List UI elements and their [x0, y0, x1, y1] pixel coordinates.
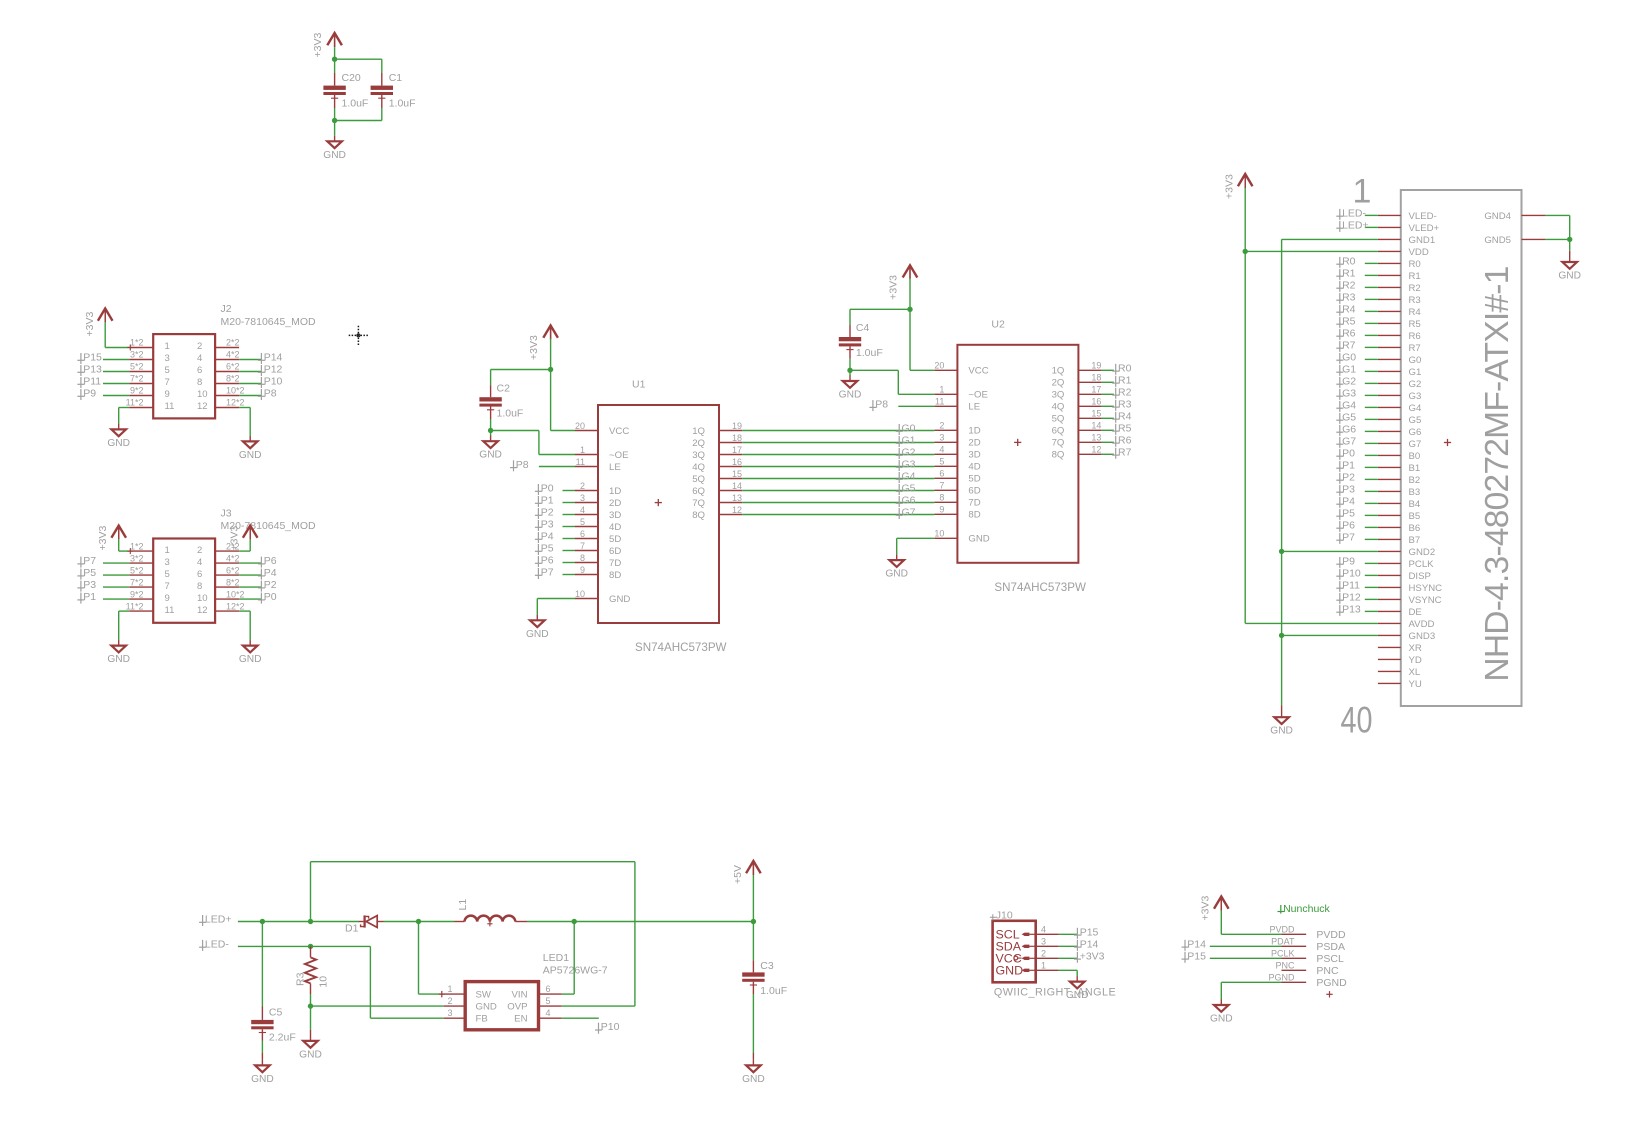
svg-text:G2: G2 [1342, 375, 1356, 387]
svg-text:R3: R3 [1409, 295, 1421, 306]
wire net P4 to NHD [1365, 502, 1378, 504]
svg-text:P10: P10 [1342, 567, 1361, 579]
svg-text:8D: 8D [609, 570, 621, 581]
svg-text:7: 7 [580, 541, 585, 551]
Nunchuck origin cross [1326, 991, 1332, 997]
NHD pin 18 G5 [1378, 418, 1401, 420]
node G2 [896, 448, 903, 459]
wire GND node to U2 ~OE [850, 369, 898, 371]
node +3V3 (J10) [1074, 952, 1081, 963]
svg-text:3D: 3D [968, 450, 980, 461]
svg-text:LED-: LED- [1342, 207, 1366, 219]
wire VIN node down to LED1 VIN [573, 922, 575, 995]
svg-text:12: 12 [1091, 445, 1101, 455]
svg-text:VSYNC: VSYNC [1409, 595, 1442, 606]
ground GND (Nunchuck) [1220, 1000, 1222, 1006]
J2 pin 7 (7*2) [129, 383, 153, 385]
svg-text:1: 1 [1041, 960, 1046, 970]
svg-text:4*2: 4*2 [226, 553, 240, 563]
node P7 [77, 557, 84, 568]
wire PGND to ground [1221, 981, 1281, 983]
LED1 pin 6 VIN [539, 993, 562, 995]
svg-text:1Q: 1Q [692, 426, 705, 437]
node P11 [77, 377, 84, 388]
wire net P15 to J2 [103, 359, 129, 361]
svg-text:1: 1 [165, 341, 170, 352]
junction LED+/OVP sense [308, 919, 313, 924]
svg-text:20: 20 [934, 361, 944, 371]
wire GND5 to GND node [1545, 238, 1569, 240]
J2 origin cross [349, 326, 369, 345]
U1 pin 8 7D [575, 562, 598, 564]
svg-text:P0: P0 [264, 591, 277, 603]
NHD pin 14 G1 [1378, 370, 1401, 372]
node R4 (U2) [1112, 412, 1119, 423]
J3 pin 12 (12*2) [215, 610, 239, 612]
junction GND3 [1279, 633, 1284, 638]
svg-text:+3V3: +3V3 [1200, 896, 1212, 921]
wire J3 to net P4 [239, 574, 261, 576]
NHD pin 11 R6 [1378, 334, 1401, 336]
node P0 (U1) [535, 484, 542, 495]
LED driver LED1 AP5726WG-7 [465, 982, 538, 1030]
node P14 (Nunchuck) [1182, 940, 1189, 951]
svg-text:SN74AHC573PW: SN74AHC573PW [635, 641, 727, 654]
ground GND (J10) [1076, 976, 1078, 982]
U2 pin 17 3Q [1078, 393, 1101, 395]
node G5 [896, 484, 903, 495]
svg-text:4D: 4D [968, 462, 980, 473]
J3 pin 10 (10*2) [215, 598, 239, 600]
svg-text:GND3: GND3 [1409, 631, 1436, 642]
wire net R4 to NHD [1365, 310, 1378, 312]
svg-text:9: 9 [165, 593, 170, 604]
svg-text:SN74AHC573PW: SN74AHC573PW [994, 581, 1086, 594]
NHD pin 22 B1 [1378, 466, 1401, 468]
NHD pin 10 R5 [1378, 322, 1401, 324]
wire GND node down [1569, 239, 1571, 250]
svg-text:R6: R6 [1409, 331, 1421, 342]
svg-text:P10: P10 [264, 376, 283, 388]
U2 pin 14 6Q [1078, 429, 1101, 431]
NHD pin GND5 [1522, 238, 1546, 240]
node P15 (Nunchuck) [1182, 952, 1189, 963]
U1 pin 11 LE [575, 466, 598, 468]
svg-text:5*2: 5*2 [130, 362, 144, 372]
NHD pin 17 G4 [1378, 406, 1401, 408]
svg-text:14: 14 [1091, 421, 1101, 431]
wire J3 to net P6 [239, 562, 261, 564]
J2 pin 3 (3*2) [129, 359, 153, 361]
NHD pin 34 DE [1378, 610, 1401, 612]
LED1 pin 3 FB [444, 1017, 466, 1019]
node G1 [896, 436, 903, 447]
node G3 [896, 460, 903, 471]
wire C4 to GND node [849, 359, 851, 371]
U2 pin 3 2D [934, 441, 957, 443]
J3 anchor cross [127, 548, 133, 554]
svg-text:R2: R2 [1342, 279, 1356, 291]
svg-text:J3: J3 [221, 507, 232, 519]
svg-text:EN: EN [514, 1014, 527, 1025]
NHD pin 26 B5 [1378, 514, 1401, 516]
svg-text:8*2: 8*2 [226, 577, 240, 587]
wire GND1 rail [1282, 238, 1378, 240]
NHD pin 7 R2 [1378, 286, 1401, 288]
svg-text:13: 13 [732, 493, 742, 503]
svg-text:2D: 2D [609, 498, 621, 509]
svg-text:+3V3: +3V3 [97, 526, 109, 551]
svg-text:4: 4 [546, 1008, 551, 1018]
svg-text:7Q: 7Q [1052, 438, 1065, 449]
NHD pin 30 PCLK [1378, 562, 1401, 564]
svg-text:P14: P14 [264, 352, 283, 364]
junction GND node (U2) [847, 368, 852, 373]
node P9 [77, 389, 84, 400]
wire GND2 pin [1282, 550, 1378, 552]
svg-text:1.0uF: 1.0uF [389, 97, 416, 109]
svg-text:P10: P10 [601, 1021, 620, 1033]
connector J3 M20-7810645_MOD [153, 539, 215, 623]
svg-text:G3: G3 [1409, 391, 1422, 402]
U2 pin 5 4D [934, 465, 957, 467]
U2 pin 1 ~OE [934, 393, 957, 395]
wire net G3 (U1 4Q to U2 4D) [742, 466, 934, 468]
wire +3V3 to VDD pin [1245, 250, 1378, 252]
svg-text:PCLK: PCLK [1271, 949, 1295, 959]
wire net R1 to NHD [1365, 274, 1378, 276]
node P4 (U1) [535, 532, 542, 543]
svg-text:G1: G1 [1342, 363, 1356, 375]
node P11 (NHD) [1336, 581, 1343, 592]
Nunchuck pin PVDD [1282, 933, 1307, 935]
svg-text:GND: GND [476, 1002, 497, 1013]
svg-text:2Q: 2Q [1052, 378, 1065, 389]
J2 pin 6 (6*2) [215, 371, 239, 373]
svg-text:GND: GND [239, 654, 262, 665]
NHD pin 38 YD [1378, 658, 1401, 660]
svg-text:7Q: 7Q [692, 498, 705, 509]
NHD pin 2 VLED+ [1378, 226, 1401, 228]
svg-text:PSDA: PSDA [1316, 941, 1345, 953]
wire net R2 to NHD [1365, 286, 1378, 288]
svg-text:LED+: LED+ [205, 914, 232, 926]
junction +5V/C3 node [751, 919, 756, 924]
svg-text:J2: J2 [221, 303, 232, 315]
svg-text:DISP: DISP [1409, 571, 1431, 582]
svg-text:VIN: VIN [512, 990, 528, 1001]
svg-text:3: 3 [1041, 936, 1046, 946]
NHD pin 6 R1 [1378, 274, 1401, 276]
J10 VCC inversion circle [1014, 956, 1018, 960]
svg-text:G4: G4 [1409, 403, 1422, 414]
svg-text:DE: DE [1409, 607, 1422, 618]
junction VIN node [572, 919, 577, 924]
svg-text:XR: XR [1409, 643, 1422, 654]
wire net P0 to U1 1D [563, 490, 576, 492]
wire net P7 to NHD [1365, 538, 1378, 540]
svg-text:4Q: 4Q [692, 462, 705, 473]
svg-text:J10: J10 [996, 909, 1013, 921]
svg-text:10: 10 [575, 589, 585, 599]
node P4 (NHD) [1336, 497, 1343, 508]
wire U2 3Q to net R2 [1102, 393, 1114, 395]
svg-text:R1: R1 [1342, 267, 1356, 279]
NHD origin cross [1444, 439, 1451, 446]
svg-text:PNC: PNC [1316, 965, 1339, 977]
svg-text:R7: R7 [1118, 446, 1132, 458]
svg-text:18: 18 [1091, 373, 1101, 383]
svg-text:1: 1 [447, 984, 452, 994]
node P10 (EN) [595, 1023, 602, 1034]
svg-text:PGND: PGND [1268, 973, 1295, 983]
svg-text:5: 5 [165, 365, 170, 376]
svg-text:10: 10 [318, 976, 330, 988]
wire net P3 to NHD [1365, 490, 1378, 492]
svg-text:D1: D1 [345, 923, 359, 935]
svg-text:5Q: 5Q [1052, 414, 1065, 425]
U1 pin 19 1Q [719, 430, 742, 432]
svg-text:P9: P9 [83, 388, 96, 400]
svg-text:8Q: 8Q [1052, 450, 1065, 461]
node P7 (U1) [535, 568, 542, 579]
U2 pin 13 7Q [1078, 441, 1101, 443]
wire LED- line [238, 945, 371, 947]
svg-text:13: 13 [1091, 433, 1101, 443]
wire net LED+ to NHD [1365, 226, 1378, 228]
wire net P1 to U1 2D [563, 502, 576, 504]
svg-text:3: 3 [447, 1008, 452, 1018]
LED1 pin 1 SW [444, 993, 466, 995]
svg-text:R6: R6 [1118, 434, 1132, 446]
J3 pin 3 (3*2) [129, 562, 153, 564]
node R1 (NHD) [1336, 269, 1343, 280]
svg-text:2D: 2D [968, 438, 980, 449]
wire net P0 to NHD [1365, 454, 1378, 456]
svg-text:XL: XL [1409, 667, 1421, 678]
svg-text:G5: G5 [902, 483, 916, 495]
U1 pin 9 8D [575, 574, 598, 576]
node G6 (NHD) [1336, 425, 1343, 436]
svg-text:GND: GND [239, 450, 262, 461]
svg-text:P12: P12 [1342, 591, 1361, 603]
svg-text:P1: P1 [83, 591, 96, 603]
node LED- [199, 940, 206, 951]
wire J3 pin12 to GND [239, 610, 250, 612]
Nunchuck pin PGND [1282, 981, 1307, 983]
wire net LED- to NHD [1365, 214, 1378, 216]
svg-text:R0: R0 [1409, 259, 1421, 270]
svg-text:11*2: 11*2 [126, 398, 144, 408]
U2 pin 18 2Q [1078, 381, 1101, 383]
capacitor C4 [849, 325, 851, 337]
svg-text:B6: B6 [1409, 523, 1421, 534]
svg-text:GND1: GND1 [1409, 235, 1436, 246]
svg-text:4: 4 [1041, 924, 1046, 934]
svg-text:PDAT: PDAT [1271, 937, 1295, 947]
wire J2 to net P14 [239, 359, 261, 361]
wire net P12 to NHD [1365, 598, 1378, 600]
NHD pin 19 G6 [1378, 430, 1401, 432]
svg-text:R5: R5 [1118, 422, 1132, 434]
node R1 (U2) [1112, 376, 1119, 387]
svg-text:9: 9 [165, 389, 170, 400]
node P1 [77, 593, 84, 604]
svg-text:2: 2 [197, 545, 202, 556]
svg-text:M20-7810645_MOD: M20-7810645_MOD [221, 316, 317, 328]
svg-text:P11: P11 [83, 376, 101, 388]
wire R3 node to GND [310, 1006, 312, 1030]
node R6 (NHD) [1336, 329, 1343, 340]
svg-text:P13: P13 [83, 364, 102, 376]
svg-text:7: 7 [165, 581, 170, 592]
svg-text:~OE: ~OE [609, 450, 628, 461]
J2 pin 9 (9*2) [129, 395, 153, 397]
wire +3V3 to U2 VCC [909, 309, 911, 370]
svg-text:+3V3: +3V3 [229, 526, 241, 551]
U2 pin 6 5D [934, 477, 957, 479]
wire net P6 to U1 7D [563, 562, 576, 564]
wire U2 2Q to net R1 [1102, 381, 1114, 383]
svg-text:GND: GND [107, 438, 130, 449]
wire U1 GND pin to ground [537, 598, 575, 600]
svg-text:G3: G3 [1342, 387, 1356, 399]
svg-text:AP5726WG-7: AP5726WG-7 [543, 964, 608, 976]
svg-text:+3V3: +3V3 [84, 312, 96, 337]
NHD pin 3 GND1 [1378, 238, 1401, 240]
svg-text:R4: R4 [1409, 307, 1422, 318]
svg-text:G5: G5 [1342, 411, 1356, 423]
node G7 [896, 508, 903, 519]
node R5 (NHD) [1336, 317, 1343, 328]
svg-text:2: 2 [197, 341, 202, 352]
wire +3V3 node to C4 [850, 308, 910, 310]
wire net G1 to NHD [1365, 370, 1378, 372]
NHD pin 28 B7 [1378, 538, 1401, 540]
junction +3V3 (U1) [548, 367, 553, 372]
power +3V3 (Nunchuck) [1214, 897, 1229, 911]
svg-text:2Q: 2Q [692, 438, 705, 449]
svg-text:6Q: 6Q [1052, 426, 1065, 437]
wire +3V3 down (U2) [909, 278, 911, 309]
svg-text:P14: P14 [1080, 938, 1099, 950]
J2 anchor cross [127, 345, 133, 351]
svg-text:LE: LE [968, 402, 980, 413]
LED1 pin 4 EN [539, 1017, 562, 1019]
node P5 (U1) [535, 544, 542, 555]
wire +3V3 rail down to AVDD [1244, 188, 1246, 623]
svg-text:LED-: LED- [205, 938, 229, 950]
svg-text:1Q: 1Q [1052, 366, 1065, 377]
svg-text:GND: GND [323, 150, 346, 161]
svg-text:3*2: 3*2 [130, 350, 144, 360]
junction +3V3 node [332, 57, 337, 62]
svg-text:2: 2 [447, 996, 452, 1006]
svg-text:P7: P7 [1342, 531, 1355, 543]
svg-text:18: 18 [732, 433, 742, 443]
wire net P10 to NHD [1365, 574, 1378, 576]
svg-text:G2: G2 [902, 447, 916, 459]
wire net G2 to NHD [1365, 382, 1378, 384]
svg-text:3Q: 3Q [1052, 390, 1065, 401]
junction SW node [416, 919, 421, 924]
node R3 (NHD) [1336, 293, 1343, 304]
node P1 (U1) [535, 496, 542, 507]
svg-text:B1: B1 [1409, 463, 1421, 474]
junction VDD [1243, 249, 1248, 254]
node P9 (NHD) [1336, 557, 1343, 568]
svg-text:VCC: VCC [609, 426, 629, 437]
svg-text:P1: P1 [541, 495, 554, 507]
NHD pin 16 G3 [1378, 394, 1401, 396]
wire net G2 (U1 3Q to U2 3D) [742, 454, 934, 456]
svg-text:P3: P3 [83, 579, 96, 591]
node G2 (NHD) [1336, 377, 1343, 388]
node P8 (U1) [510, 460, 517, 471]
U1 pin 13 7Q [719, 502, 742, 504]
svg-text:6Q: 6Q [692, 486, 705, 497]
svg-text:1.0uF: 1.0uF [760, 985, 787, 997]
U1 origin cross [655, 499, 662, 506]
U2 pin 9 8D [934, 513, 957, 515]
svg-text:PCLK: PCLK [1409, 559, 1435, 570]
wire J2 to net P8 [239, 395, 261, 397]
svg-text:G7: G7 [1342, 435, 1356, 447]
node P6 (U1) [535, 556, 542, 567]
NHD pin 29 GND2 [1378, 550, 1401, 552]
svg-text:P2: P2 [1342, 471, 1355, 483]
junction LED+/C5 [260, 919, 265, 924]
U1 pin 20 VCC [575, 430, 598, 432]
ground GND (J2 pin12) [249, 436, 251, 442]
wire net P3 to J3 [103, 586, 129, 588]
node LED+ (NHD) [1336, 221, 1343, 232]
svg-text:9: 9 [580, 565, 585, 575]
svg-text:5: 5 [580, 517, 585, 527]
junction GND node (U1) [488, 428, 493, 433]
svg-text:2: 2 [939, 421, 944, 431]
NHD pin 20 G7 [1378, 442, 1401, 444]
ground GND (C3) [752, 1060, 754, 1066]
ground GND (U2) [896, 555, 898, 561]
NHD pin 31 DISP [1378, 574, 1401, 576]
wire J3 pin11 to GND [119, 610, 130, 612]
wire J2 pin12 to GND [239, 407, 250, 409]
ground GND (NHD right) [1569, 251, 1571, 262]
svg-text:11: 11 [165, 605, 175, 616]
svg-text:1: 1 [939, 385, 944, 395]
node P2 (NHD) [1336, 473, 1343, 484]
svg-text:C1: C1 [389, 72, 403, 84]
svg-text:P5: P5 [1342, 507, 1355, 519]
svg-text:G1: G1 [902, 435, 916, 447]
node P5 (NHD) [1336, 509, 1343, 520]
svg-text:10: 10 [934, 529, 944, 539]
wire net R0 to NHD [1365, 262, 1378, 264]
wire net P8 to U1 LE [539, 466, 575, 468]
NHD pin 15 G2 [1378, 382, 1401, 384]
svg-text:G0: G0 [1409, 355, 1422, 366]
svg-text:12*2: 12*2 [226, 398, 245, 408]
svg-text:10: 10 [197, 593, 208, 604]
node R0 (NHD) [1336, 257, 1343, 268]
node P5 [77, 569, 84, 580]
svg-text:4*2: 4*2 [226, 350, 240, 360]
svg-text:1: 1 [165, 545, 170, 556]
svg-text:P6: P6 [1342, 519, 1355, 531]
svg-text:6: 6 [546, 984, 551, 994]
svg-text:4: 4 [580, 505, 585, 515]
